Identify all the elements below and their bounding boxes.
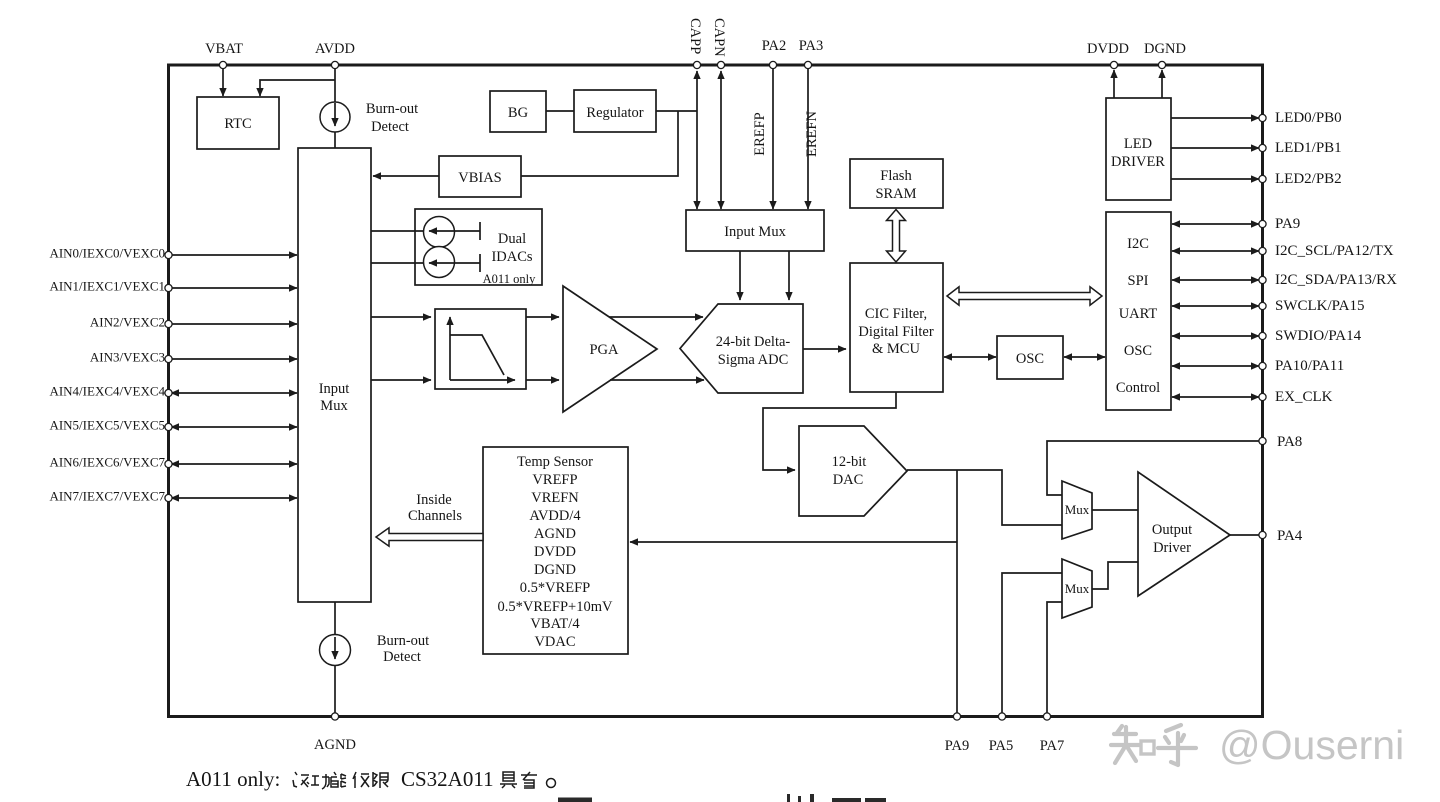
svg-text:AIN5/IEXC5/VEXC5: AIN5/IEXC5/VEXC5 bbox=[49, 418, 165, 433]
svg-text:VBAT/4: VBAT/4 bbox=[530, 616, 580, 632]
svg-text:Regulator: Regulator bbox=[586, 105, 643, 121]
svg-text:@Ouserni: @Ouserni bbox=[1219, 722, 1404, 768]
24-bit Delta-Sigma ADC block bbox=[680, 304, 803, 393]
wire AVDD branch to RTC bbox=[260, 80, 335, 96]
wire PGA to ADC lower bbox=[610, 379, 704, 381]
svg-text:Input: Input bbox=[319, 381, 350, 397]
node AIN7 bbox=[165, 494, 172, 501]
svg-text:SPI: SPI bbox=[1128, 273, 1149, 289]
node CAPP bbox=[693, 61, 700, 68]
filter response curve bbox=[450, 335, 504, 375]
svg-text:DVDD: DVDD bbox=[534, 544, 576, 560]
svg-text:I2C_SCL/PA12/TX: I2C_SCL/PA12/TX bbox=[1275, 243, 1394, 259]
wire CIC to OSC bbox=[944, 356, 996, 358]
pin AIN0 wire bbox=[170, 254, 297, 256]
wire CAPP bbox=[696, 71, 698, 209]
wire inside channels feed bbox=[630, 541, 957, 543]
wire Input Mux to AGND bbox=[334, 602, 336, 635]
svg-text:Dual: Dual bbox=[498, 231, 526, 247]
svg-text:BG: BG bbox=[508, 105, 529, 121]
caption glyph gai bbox=[293, 772, 309, 787]
wire PA5 bottom to mux M2 bbox=[1002, 573, 1062, 715]
block Dual IDACs bbox=[415, 209, 542, 285]
pin AIN5 wire bbox=[171, 426, 297, 428]
svg-text:Control: Control bbox=[1116, 380, 1160, 396]
12-bit DAC block bbox=[799, 426, 907, 516]
svg-text:Digital Filter: Digital Filter bbox=[858, 324, 933, 340]
svg-text:Burn-out: Burn-out bbox=[377, 633, 429, 649]
node LED2 bbox=[1259, 175, 1266, 182]
svg-text:VBAT: VBAT bbox=[205, 41, 243, 57]
node PA3 bbox=[804, 61, 811, 68]
node AIN6 bbox=[165, 460, 172, 467]
svg-text:Channels: Channels bbox=[408, 508, 462, 524]
svg-text:SRAM: SRAM bbox=[875, 186, 916, 202]
wire Input Mux top to ADC left bbox=[739, 251, 741, 300]
mux M1 bbox=[1062, 481, 1092, 539]
block LED DRIVER bbox=[1106, 98, 1171, 200]
svg-text:VREFN: VREFN bbox=[531, 490, 579, 506]
svg-text:Mux: Mux bbox=[320, 398, 348, 414]
wire Input Mux to IDAC1 bbox=[371, 230, 424, 232]
node VBAT bbox=[219, 61, 226, 68]
watermark zhihu Ouserni bbox=[1111, 725, 1196, 765]
svg-text:AVDD: AVDD bbox=[315, 41, 355, 57]
svg-text:PA10/PA11: PA10/PA11 bbox=[1275, 358, 1344, 374]
svg-text:DGND: DGND bbox=[1144, 41, 1186, 57]
mux M2 bbox=[1062, 559, 1092, 618]
svg-text:A011 only:: A011 only: bbox=[186, 767, 280, 791]
wire EX_CLK bbox=[1172, 396, 1259, 398]
svg-text:AVDD/4: AVDD/4 bbox=[529, 508, 581, 524]
block VBIAS bbox=[439, 156, 521, 197]
svg-text:Mux: Mux bbox=[1065, 581, 1090, 596]
node AVDD bbox=[331, 61, 338, 68]
pin AIN3 wire bbox=[170, 358, 297, 360]
wire Input Mux to filter lower bbox=[371, 379, 431, 381]
svg-text:AIN1/IEXC1/VEXC1: AIN1/IEXC1/VEXC1 bbox=[49, 279, 165, 294]
wire Input Mux top to ADC right bbox=[788, 251, 790, 300]
node PA2 bbox=[769, 61, 776, 68]
svg-text:AIN6/IEXC6/VEXC7: AIN6/IEXC6/VEXC7 bbox=[49, 455, 165, 470]
block I2C SPI UART OSC Control bbox=[1106, 212, 1171, 410]
svg-text:UART: UART bbox=[1119, 306, 1158, 322]
node PA10 bbox=[1259, 362, 1266, 369]
node SWCLK bbox=[1259, 302, 1266, 309]
svg-text:LED1/PB1: LED1/PB1 bbox=[1275, 140, 1342, 156]
wire Regulator to VBIAS bbox=[521, 111, 678, 176]
node AGND bbox=[331, 713, 338, 720]
wire mux M1 to output driver bbox=[1092, 509, 1138, 511]
block Input Mux (left tall) bbox=[298, 148, 371, 602]
node AIN4 bbox=[165, 389, 172, 396]
IDAC current source 1 bbox=[424, 217, 455, 248]
svg-text:IDACs: IDACs bbox=[491, 249, 532, 265]
wire PA9 right bbox=[1172, 223, 1259, 225]
pin AIN7 wire bbox=[171, 497, 297, 499]
wire DVDD to LED DRIVER bbox=[1113, 70, 1115, 98]
svg-text:EX_CLK: EX_CLK bbox=[1275, 389, 1333, 405]
node PA5 bottom bbox=[998, 713, 1005, 720]
node PA7 bottom bbox=[1043, 713, 1050, 720]
svg-text:AIN7/IEXC7/VEXC7: AIN7/IEXC7/VEXC7 bbox=[49, 489, 165, 504]
svg-text:AIN0/IEXC0/VEXC0: AIN0/IEXC0/VEXC0 bbox=[49, 246, 165, 261]
svg-text:VBIAS: VBIAS bbox=[458, 170, 502, 186]
svg-text:I2C: I2C bbox=[1127, 236, 1149, 252]
node EX_CLK bbox=[1259, 393, 1266, 400]
node DGND bbox=[1158, 61, 1165, 68]
node DVDD bbox=[1110, 61, 1117, 68]
wire Input Mux to IDAC2 bbox=[371, 262, 424, 264]
pin AIN2 wire bbox=[170, 323, 297, 325]
svg-text:LED2/PB2: LED2/PB2 bbox=[1275, 171, 1342, 187]
caption glyph neng bbox=[331, 772, 346, 787]
wire DGND to LED DRIVER bbox=[1161, 70, 1163, 98]
svg-text:PA3: PA3 bbox=[799, 38, 823, 54]
svg-text:RTC: RTC bbox=[224, 116, 251, 132]
node PA9 bbox=[1259, 220, 1266, 227]
node PA9 bottom bbox=[953, 713, 960, 720]
filter response axes bbox=[450, 379, 515, 381]
block Flash SRAM bbox=[850, 159, 943, 208]
svg-text:PGA: PGA bbox=[589, 342, 619, 358]
svg-text:0.5*VREFP+10mV: 0.5*VREFP+10mV bbox=[498, 599, 613, 615]
svg-text:Input Mux: Input Mux bbox=[724, 224, 786, 240]
svg-text:OSC: OSC bbox=[1016, 351, 1044, 367]
wire PA7 bottom to mux M2 bbox=[1047, 602, 1062, 715]
svg-text:LED: LED bbox=[1124, 136, 1152, 152]
svg-text:EREFP: EREFP bbox=[752, 112, 768, 156]
wire PA2 EREFP bbox=[772, 65, 774, 209]
pin AIN4 wire bbox=[171, 392, 297, 394]
wire PA8 bbox=[1047, 441, 1261, 495]
node I2C_SDA bbox=[1259, 276, 1266, 283]
block Input Mux (top) bbox=[686, 210, 824, 251]
hollow arrow CIC to I2C block bbox=[947, 287, 1102, 305]
svg-text:A011 only: A011 only bbox=[483, 272, 536, 286]
svg-text:Inside: Inside bbox=[416, 492, 451, 508]
block anti-alias filter bbox=[435, 309, 526, 389]
svg-text:CAPN: CAPN bbox=[711, 18, 727, 57]
pin AIN6 wire bbox=[171, 463, 297, 465]
svg-text:Mux: Mux bbox=[1065, 502, 1090, 517]
wire mux M2 to output driver bbox=[1092, 562, 1138, 589]
svg-text:OSC: OSC bbox=[1124, 343, 1152, 359]
hollow arrow Flash SRAM to CIC bbox=[887, 210, 906, 263]
svg-text:Temp Sensor: Temp Sensor bbox=[517, 454, 593, 470]
svg-text:I2C_SDA/PA13/RX: I2C_SDA/PA13/RX bbox=[1275, 272, 1397, 288]
svg-text:VREFP: VREFP bbox=[532, 472, 577, 488]
wire I2C_SCL bbox=[1172, 250, 1259, 252]
svg-text:EREFN: EREFN bbox=[804, 111, 820, 157]
node LED0 bbox=[1259, 114, 1266, 121]
wire DAC output to mux M1 bbox=[907, 470, 1062, 525]
wire Input Mux to filter upper bbox=[371, 316, 431, 318]
wire SWDIO bbox=[1172, 335, 1259, 337]
hollow arrow Inside Channels bbox=[376, 528, 483, 546]
node AIN0 bbox=[165, 251, 172, 258]
wire filter to PGA upper bbox=[526, 316, 559, 318]
caption glyph xian bbox=[373, 772, 388, 788]
svg-text:Output: Output bbox=[1152, 522, 1192, 538]
caption glyph ju bbox=[500, 772, 517, 788]
svg-text:SWCLK/PA15: SWCLK/PA15 bbox=[1275, 298, 1364, 314]
wire LED0 bbox=[1171, 117, 1259, 119]
svg-text:AIN4/IEXC4/VEXC4: AIN4/IEXC4/VEXC4 bbox=[49, 384, 165, 399]
svg-text:Flash: Flash bbox=[880, 168, 912, 184]
node LED1 bbox=[1259, 144, 1266, 151]
block CIC Filter Digital Filter MCU bbox=[850, 263, 943, 392]
node SWDIO bbox=[1259, 332, 1266, 339]
svg-text:DAC: DAC bbox=[833, 472, 864, 488]
caption glyph you bbox=[521, 772, 537, 788]
RTC block bbox=[197, 97, 279, 149]
svg-text:PA2: PA2 bbox=[762, 38, 786, 54]
svg-text:CS32A011: CS32A011 bbox=[401, 767, 494, 791]
svg-text:& MCU: & MCU bbox=[872, 341, 920, 357]
caption full stop bbox=[547, 779, 556, 788]
wire BG to Regulator bbox=[546, 110, 574, 112]
svg-text:Sigma ADC: Sigma ADC bbox=[718, 352, 789, 368]
svg-text:CAPP: CAPP bbox=[687, 18, 703, 54]
wire PA9 bottom bbox=[956, 470, 958, 715]
svg-text:DRIVER: DRIVER bbox=[1111, 154, 1165, 170]
wire PA3 EREFN bbox=[807, 65, 809, 209]
svg-text:AGND: AGND bbox=[314, 737, 356, 753]
svg-text:DGND: DGND bbox=[534, 562, 576, 578]
svg-text:Driver: Driver bbox=[1153, 540, 1191, 556]
block Temp Sensor internal channels bbox=[483, 447, 628, 654]
block OSC bbox=[997, 336, 1063, 379]
wire ADC to CIC bbox=[803, 348, 846, 350]
wire CAPN bbox=[720, 71, 722, 209]
wire CIC to 12-bit DAC bbox=[763, 392, 896, 470]
svg-text:24-bit Delta-: 24-bit Delta- bbox=[716, 334, 791, 350]
svg-text:DVDD: DVDD bbox=[1087, 41, 1129, 57]
wire output driver to PA4 bbox=[1230, 534, 1261, 536]
chip boundary bbox=[169, 65, 1263, 717]
caption fragments at page bottom bbox=[558, 794, 886, 802]
svg-text:LED0/PB0: LED0/PB0 bbox=[1275, 110, 1342, 126]
block BG bbox=[490, 91, 546, 132]
wire VBIAS to Input Mux bbox=[373, 175, 439, 177]
wire filter to PGA lower bbox=[526, 379, 559, 381]
svg-text:VDAC: VDAC bbox=[534, 634, 575, 650]
IDAC current source 2 bbox=[424, 247, 455, 278]
wire OSC to I2C block bbox=[1064, 356, 1105, 358]
caption glyph gong bbox=[311, 774, 329, 789]
node AIN2 bbox=[165, 320, 172, 327]
svg-text:Detect: Detect bbox=[383, 649, 421, 665]
caption glyph jin bbox=[353, 772, 369, 788]
node PA4 bbox=[1259, 531, 1266, 538]
svg-text:AGND: AGND bbox=[534, 526, 576, 542]
svg-text:AIN2/VEXC2: AIN2/VEXC2 bbox=[90, 315, 165, 330]
svg-text:Burn-out: Burn-out bbox=[366, 101, 418, 117]
PGA amplifier triangle bbox=[563, 286, 657, 412]
svg-text:SWDIO/PA14: SWDIO/PA14 bbox=[1275, 328, 1362, 344]
svg-text:PA5: PA5 bbox=[989, 738, 1013, 754]
node CAPN bbox=[717, 61, 724, 68]
svg-text:12-bit: 12-bit bbox=[832, 454, 867, 470]
svg-text:PA4: PA4 bbox=[1277, 528, 1303, 544]
svg-text:PA8: PA8 bbox=[1277, 434, 1302, 450]
node AIN1 bbox=[165, 284, 172, 291]
Output Driver amplifier bbox=[1138, 472, 1230, 596]
wire Regulator to CAPP net bbox=[656, 110, 697, 112]
node AIN5 bbox=[165, 423, 172, 430]
svg-text:Detect: Detect bbox=[371, 119, 409, 135]
wire AVDD down bbox=[334, 65, 336, 148]
node AIN3 bbox=[165, 355, 172, 362]
svg-text:PA7: PA7 bbox=[1040, 738, 1064, 754]
current source burn-out detect bottom bbox=[320, 635, 351, 666]
pin AIN1 wire bbox=[170, 287, 297, 289]
svg-text:PA9: PA9 bbox=[945, 738, 969, 754]
svg-text:CIC Filter,: CIC Filter, bbox=[865, 306, 927, 322]
wire LED2 bbox=[1171, 178, 1259, 180]
block Regulator bbox=[574, 90, 656, 132]
current source burn-out detect top bbox=[320, 102, 350, 132]
node PA8 bbox=[1259, 437, 1266, 444]
node I2C_SCL bbox=[1259, 247, 1266, 254]
wire SWCLK bbox=[1172, 305, 1259, 307]
svg-text:PA9: PA9 bbox=[1275, 216, 1300, 232]
wire LED1 bbox=[1171, 147, 1259, 149]
svg-text:0.5*VREFP: 0.5*VREFP bbox=[520, 580, 591, 596]
wire I2C_SDA bbox=[1172, 279, 1259, 281]
svg-text:AIN3/VEXC3: AIN3/VEXC3 bbox=[90, 350, 165, 365]
wire PA10 PA11 bbox=[1172, 365, 1259, 367]
wire VBAT to RTC bbox=[222, 65, 224, 96]
wire PGA to ADC upper bbox=[609, 316, 703, 318]
